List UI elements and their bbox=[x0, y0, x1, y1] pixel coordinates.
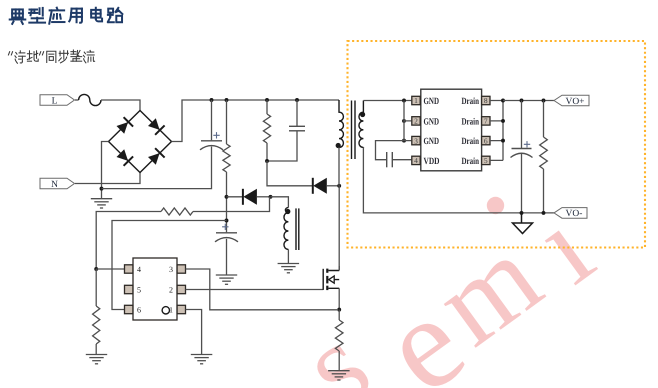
wire pin1 to ground bbox=[186, 310, 202, 355]
T1 core bbox=[352, 101, 356, 160]
ground G6 bbox=[328, 371, 350, 380]
junction dot node D5-cathode bbox=[225, 195, 229, 199]
svg-text:2: 2 bbox=[169, 286, 173, 295]
dashed boundary box bbox=[348, 41, 646, 248]
aux winding W1 bbox=[284, 208, 288, 250]
svg-text:6: 6 bbox=[484, 136, 488, 145]
svg-text:5: 5 bbox=[137, 286, 141, 295]
U1 pin 7 box bbox=[482, 117, 490, 125]
terminal N bbox=[40, 178, 75, 190]
svg-text:N: N bbox=[51, 180, 58, 190]
U1 pin 4 box bbox=[412, 156, 420, 164]
terminal L bbox=[40, 95, 75, 107]
ground G2 bbox=[216, 275, 237, 284]
junction dot rail-C1 bbox=[210, 98, 214, 102]
capacitor C2 (VCC electrolytic) bbox=[215, 233, 238, 242]
wire bridge right vertex to top rail bbox=[172, 100, 340, 142]
U1 pin 3 box bbox=[412, 136, 420, 144]
wire C5 top lead bbox=[521, 101, 523, 149]
U1 pin 8 box bbox=[482, 96, 490, 104]
junction dot sec bus 1 bbox=[402, 99, 406, 103]
wire C4 to pin VDD bbox=[392, 159, 411, 161]
transistor Q1 (power MOSFET) bbox=[323, 269, 339, 291]
junction dot aux node bbox=[269, 195, 273, 199]
wire VCC-tap to pin6 bbox=[112, 221, 227, 310]
wire C5 bottom lead bbox=[521, 154, 523, 213]
svg-text:Drain: Drain bbox=[462, 117, 480, 127]
resistor R4 bbox=[93, 306, 100, 344]
diode D6 (clamp) bbox=[313, 178, 327, 194]
capacitor C1 (bulk electrolytic) bbox=[200, 141, 223, 150]
wire R5 to ground bbox=[338, 351, 340, 371]
IC U1 body bbox=[421, 89, 482, 171]
svg-text:Drain: Drain bbox=[462, 97, 480, 107]
capacitor C5 (output electrolytic) bbox=[511, 149, 533, 158]
U1 pin 2 box bbox=[412, 117, 420, 125]
wire R1 to node VCC bbox=[226, 172, 228, 232]
wire output negative rail bbox=[363, 147, 554, 213]
U1 pin 1 box bbox=[412, 96, 420, 104]
subtitle "浮地"同步整流 bbox=[8, 52, 12, 55]
wire fuse to bridge top bbox=[101, 100, 140, 111]
wire D6 anode to drain net bbox=[327, 185, 339, 187]
wire N to bridge bottom bbox=[75, 173, 140, 184]
junction dot source sense node bbox=[337, 308, 341, 312]
wire C3 to snubber node bbox=[267, 131, 297, 161]
floating ground symbol bbox=[513, 213, 533, 234]
junction dot drain bus 1 bbox=[501, 99, 505, 103]
wire W1 to ground bbox=[287, 249, 289, 263]
wire L to fuse bbox=[75, 99, 79, 101]
ground G3 bbox=[278, 264, 300, 273]
svg-text:GND: GND bbox=[424, 117, 440, 127]
diode D4 (bridge bottom-right) bbox=[148, 148, 165, 165]
title 典型应用电路 bbox=[10, 9, 26, 23]
junction dot node DC- bbox=[100, 187, 104, 191]
wire GND bus left bbox=[404, 101, 411, 141]
W1 phase dot bbox=[285, 209, 290, 214]
resistor R2 (snubber) bbox=[263, 114, 270, 143]
fuse F1 bbox=[79, 94, 101, 105]
transformer T1 primary winding bbox=[339, 100, 343, 147]
wire rail to C3 bbox=[296, 100, 298, 126]
label C1 plus bbox=[213, 132, 219, 138]
svg-text:1: 1 bbox=[414, 96, 418, 105]
ground G4 bbox=[86, 355, 107, 364]
svg-text:L: L bbox=[52, 96, 58, 106]
junction dot drain bus 2 bbox=[501, 119, 505, 123]
wire pin2 to gate bbox=[186, 289, 324, 291]
wire R6 top lead bbox=[543, 101, 545, 138]
U2 pin 3 box bbox=[177, 265, 185, 273]
U1 pin 6 box bbox=[482, 136, 490, 144]
resistor R3 bbox=[161, 208, 193, 215]
wire primary to MOSFET drain bbox=[338, 147, 340, 270]
wire R2 to snubber node bbox=[266, 143, 268, 161]
wire secondary top to U1 pin1 bbox=[363, 100, 411, 102]
junction dot neg-C5 bbox=[520, 211, 524, 215]
junction dot out-R6 bbox=[542, 99, 546, 103]
svg-text:7: 7 bbox=[484, 117, 488, 126]
junction dot node VCC-tap bbox=[225, 219, 229, 223]
wire R4 to ground bbox=[95, 344, 97, 355]
wire aux node to winding bbox=[271, 197, 289, 208]
svg-text:6: 6 bbox=[137, 306, 141, 315]
U1 pin 5 box bbox=[482, 156, 490, 164]
wire rail to R1 bbox=[226, 100, 228, 144]
U2 pin 6 box bbox=[125, 305, 133, 313]
wire snubber node to D6 bbox=[267, 161, 313, 186]
wire rail to R2 bbox=[266, 100, 268, 114]
wire bridge left vertex to ground node bbox=[102, 142, 109, 199]
diode D2 (bridge top-right) bbox=[148, 118, 165, 135]
transformer T1 secondary winding bbox=[359, 101, 363, 148]
label C5 plus bbox=[524, 141, 530, 147]
wire DC- rail to C1 bottom bbox=[102, 147, 212, 189]
junction dot rail-R2 bbox=[265, 98, 269, 102]
wire VDD cap branch bbox=[376, 141, 405, 160]
U2 pin 5 box bbox=[125, 285, 133, 293]
svg-text:Drain: Drain bbox=[462, 157, 480, 167]
T1 secondary phase dot bbox=[360, 112, 365, 117]
U2 pin 4 box bbox=[125, 265, 133, 273]
resistor R6 (load) bbox=[540, 137, 548, 169]
wire rail to C1 bbox=[211, 100, 213, 140]
junction dot rail-C3 bbox=[295, 98, 299, 102]
junction dot neg-R6 bbox=[542, 211, 546, 215]
diode D5 (aux rectifier) bbox=[243, 189, 257, 205]
wire D5 anode to aux node bbox=[257, 196, 271, 198]
wire R6 bottom lead bbox=[543, 169, 545, 213]
junction dot pin4 node bbox=[94, 267, 98, 271]
svg-text:VO-: VO- bbox=[566, 209, 583, 219]
svg-text:5: 5 bbox=[484, 156, 488, 165]
svg-text:VDD: VDD bbox=[424, 157, 440, 167]
resistor R1 bbox=[223, 144, 230, 172]
junction dot out-C5 bbox=[520, 99, 524, 103]
decor bbox=[278, 183, 615, 388]
wire aux node down to R3 line bbox=[193, 197, 270, 212]
wire C2 to ground bbox=[226, 239, 228, 275]
wire drain stubs bbox=[490, 101, 503, 161]
W1 core bbox=[296, 208, 299, 250]
ground G1 bbox=[91, 199, 112, 208]
U2 pin 1 box bbox=[177, 305, 185, 313]
label C2 plus bbox=[222, 224, 228, 230]
terminal VO- bbox=[554, 208, 587, 220]
junction dot drain-clamp bbox=[337, 184, 341, 188]
junction dot snubber node bbox=[265, 159, 269, 163]
wire pin4 stub bbox=[96, 268, 124, 270]
wire VCC node to D5 bbox=[227, 196, 243, 198]
diode D1 (bridge top-left) bbox=[117, 117, 134, 134]
svg-text:3: 3 bbox=[169, 265, 173, 274]
capacitor C3 (snubber) bbox=[289, 126, 305, 131]
wire Q1 drain up bbox=[338, 266, 340, 270]
resistor R5 (sense) bbox=[335, 320, 343, 351]
wire output positive rail bbox=[503, 100, 554, 102]
junction dot drain bus 3 bbox=[501, 139, 505, 143]
wire Q1 source down bbox=[338, 288, 340, 309]
ground G5 bbox=[191, 355, 213, 364]
svg-text:VO+: VO+ bbox=[565, 97, 584, 107]
wire pin4 node to R4 bbox=[95, 269, 97, 306]
capacitor C4 (VDD) bbox=[387, 152, 393, 167]
terminal VO+ bbox=[554, 95, 589, 107]
junction dot rail-R1 bbox=[225, 98, 229, 102]
junction dot sec bus 3 bbox=[402, 139, 406, 143]
svg-text:4: 4 bbox=[137, 265, 141, 274]
svg-text:2: 2 bbox=[414, 117, 418, 126]
U2 pin1 indicator circle bbox=[162, 307, 169, 314]
diode D3 (bridge bottom-left) bbox=[117, 149, 134, 166]
svg-text:GND: GND bbox=[424, 137, 440, 147]
T1 primary phase dot bbox=[336, 143, 341, 148]
svg-text:4: 4 bbox=[414, 156, 418, 165]
IC U2 body bbox=[133, 258, 177, 320]
svg-text:Drain: Drain bbox=[462, 137, 480, 147]
junction dot sec bus 2 bbox=[402, 119, 406, 123]
U2 pin 2 box bbox=[177, 285, 185, 293]
wire pin3 to source sense bbox=[186, 269, 338, 310]
svg-text:3: 3 bbox=[414, 136, 418, 145]
bridge rectifier BR1 frame bbox=[109, 111, 172, 173]
svg-text:GND: GND bbox=[424, 97, 440, 107]
svg-text:8: 8 bbox=[484, 96, 488, 105]
wire sense node to R5 bbox=[338, 310, 340, 320]
wire R3 to left vertical bbox=[96, 212, 161, 270]
